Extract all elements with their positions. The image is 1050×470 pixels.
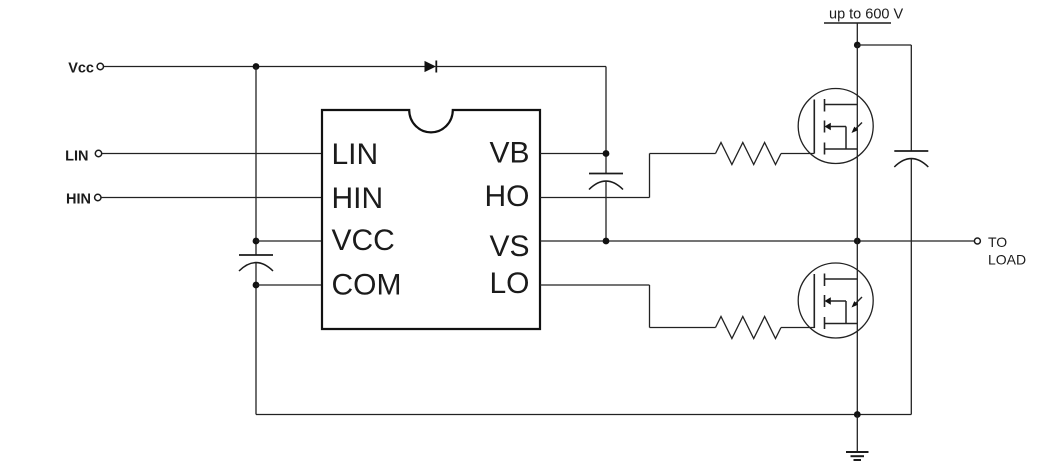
svg-text:VB: VB [489, 137, 529, 170]
svg-text:LOAD: LOAD [988, 252, 1026, 268]
wire R1 to Q1 gate [781, 153, 814, 155]
svg-text:Vcc: Vcc [68, 61, 94, 77]
wire decoupling cap to COM and bottom rail [255, 263, 257, 415]
junction COM pin [253, 282, 260, 289]
HV rail bar [824, 22, 891, 24]
capacitor C2 bootstrap [589, 174, 623, 190]
svg-text:up to 600 V: up to 600 V [829, 7, 903, 23]
terminal Vcc [97, 63, 103, 69]
wire LO to gate resistor [650, 327, 716, 329]
wire ground stub [856, 415, 858, 452]
wire bus cap top lead [910, 45, 912, 151]
wire bus cap bottom lead [910, 159, 912, 415]
wire half-bridge lower leg [856, 241, 858, 415]
resistor R1 high-side gate [716, 143, 782, 165]
wire HV rail to bus cap [857, 44, 911, 46]
wire bottom rail [256, 414, 911, 416]
junction VS / bootstrap cap [603, 238, 610, 245]
wire R2 to Q2 gate [781, 327, 814, 329]
junction VB node [603, 150, 610, 157]
wire VCC pin [256, 240, 322, 242]
svg-text:HO: HO [485, 180, 530, 213]
capacitor C3 bus [894, 151, 928, 167]
svg-text:VCC: VCC [332, 224, 395, 257]
wire diode cathode to VB branch [436, 66, 606, 68]
terminal LIN [95, 150, 101, 156]
svg-text:HIN: HIN [332, 182, 384, 215]
wire HO pin [540, 197, 650, 199]
ground [846, 452, 869, 460]
terminal TO LOAD [974, 238, 980, 244]
junction Vcc / VCC branch [253, 63, 260, 70]
junction VCC pin [253, 238, 260, 245]
wire VB branch vertical to bootstrap cap [605, 67, 607, 174]
wire COM pin [256, 284, 322, 286]
transistor Q2 low-side MOSFET [798, 263, 873, 338]
svg-text:LIN: LIN [332, 138, 379, 171]
capacitor C1 decoupling [239, 255, 273, 271]
wire VB pin to bootstrap cap [540, 153, 606, 155]
resistor R2 low-side gate [716, 317, 782, 339]
junction bottom rail / ground [854, 411, 861, 418]
wire HO to gate resistor [650, 153, 716, 155]
junction VS / half-bridge midpoint [854, 238, 861, 245]
svg-text:COM: COM [332, 269, 402, 302]
wire HIN input [101, 197, 322, 199]
wire LIN input [102, 153, 322, 155]
svg-text:TO: TO [988, 234, 1007, 250]
wire HV bar stub [856, 23, 858, 45]
junction HV rail [854, 42, 861, 49]
wire VS pin to load terminal [540, 240, 974, 242]
svg-text:LO: LO [489, 267, 529, 300]
svg-text:HIN: HIN [66, 191, 91, 207]
svg-text:VS: VS [489, 230, 529, 263]
wire HO riser [649, 154, 651, 198]
wire bootstrap cap to VS node [605, 181, 607, 241]
wire LO drop [649, 285, 651, 328]
wire LO pin [540, 284, 650, 286]
wire Vcc to diode anode [104, 66, 425, 68]
svg-text:LIN: LIN [65, 149, 88, 165]
terminal HIN [95, 194, 101, 200]
IC U1 gate driver body [322, 110, 540, 329]
diode D1 bootstrap [425, 61, 437, 73]
transistor Q1 high-side MOSFET [798, 89, 873, 164]
wire Vcc branch vertical down to decoupling cap [255, 67, 257, 256]
wire half-bridge upper leg [856, 45, 858, 241]
